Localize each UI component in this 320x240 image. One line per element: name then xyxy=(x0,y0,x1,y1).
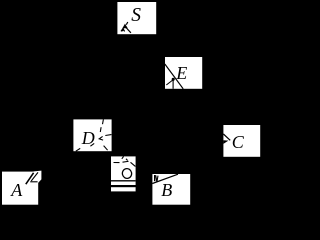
dashed wire fragments above O xyxy=(114,156,136,166)
white strip under O xyxy=(111,187,136,191)
node D (label box) xyxy=(73,119,111,151)
wire AB through O box xyxy=(111,180,136,182)
svg-text:S: S xyxy=(131,5,141,26)
label O (drawn ellipse) xyxy=(121,168,132,180)
dashed wire DB to right xyxy=(105,134,111,137)
wire fragments at A corner xyxy=(26,172,38,184)
node A (label box) xyxy=(2,171,41,205)
node E (label box) xyxy=(165,57,202,89)
svg-text:C: C xyxy=(232,132,245,152)
point marker B xyxy=(154,175,155,181)
dashed wire SD from top xyxy=(100,119,103,132)
node O (label box) xyxy=(111,156,136,191)
svg-text:B: B xyxy=(161,180,172,200)
flag extension white xyxy=(26,171,41,183)
dashed wire DC down-right xyxy=(104,146,108,151)
node B (label box) xyxy=(152,174,190,205)
arrow head at D xyxy=(99,136,103,140)
node S (label box) xyxy=(117,2,156,34)
svg-text:A: A xyxy=(10,180,23,200)
node C (label box) xyxy=(223,125,260,157)
arrowhead at C xyxy=(223,140,228,144)
dashed wire DA down-left xyxy=(76,143,94,151)
point marker S xyxy=(121,22,131,33)
wire SE-EB diagonal through E xyxy=(165,64,183,89)
point marker E xyxy=(166,78,174,89)
wire into C xyxy=(223,134,230,140)
wire EB into B corner xyxy=(152,174,178,183)
